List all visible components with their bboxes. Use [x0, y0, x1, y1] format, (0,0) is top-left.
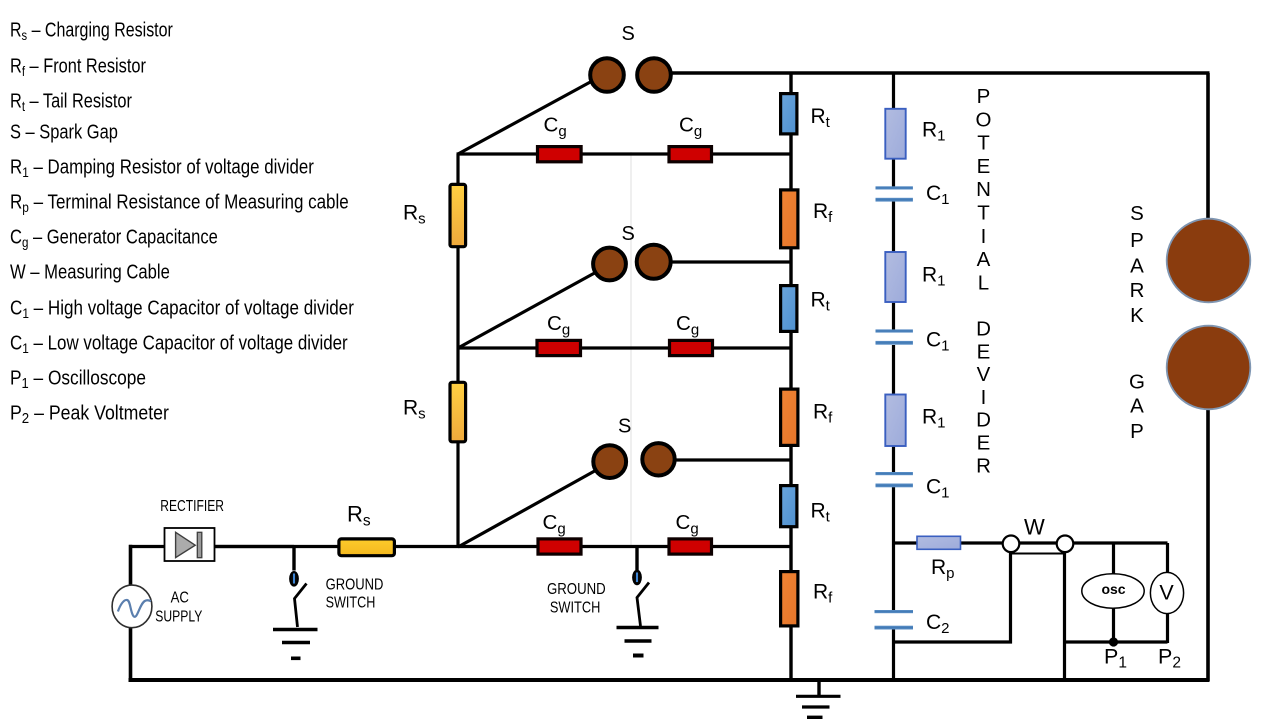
svg-text:K: K — [1130, 304, 1144, 327]
wire bottom bus — [129, 678, 1210, 682]
svg-text:AC: AC — [171, 590, 189, 607]
svg-text:GROUND: GROUND — [326, 576, 384, 593]
svg-text:S: S — [618, 416, 631, 438]
svg-text:C1 – High voltage Capacitor of: C1 – High voltage Capacitor of voltage d… — [10, 296, 354, 321]
ac source — [112, 585, 152, 628]
resistor R1c — [885, 395, 905, 447]
svg-text:E: E — [977, 340, 991, 363]
capacitor Cg row2 left — [537, 340, 581, 355]
svg-text:R1: R1 — [922, 119, 946, 145]
resistor Rf1 — [781, 190, 798, 248]
svg-text:G: G — [1129, 371, 1145, 394]
wire diagonal to spark gap S2 — [458, 270, 600, 348]
svg-text:Cg – Generator Capacitance: Cg – Generator Capacitance — [10, 225, 218, 250]
svg-text:Rt – Tail Resistor: Rt – Tail Resistor — [10, 89, 132, 114]
wire row1 — [457, 152, 792, 155]
svg-text:P: P — [977, 85, 991, 108]
svg-text:C2: C2 — [926, 611, 950, 637]
svg-text:Rt: Rt — [811, 289, 831, 315]
svg-text:RECTIFIER: RECTIFIER — [160, 496, 224, 514]
capacitor C1b — [876, 329, 913, 344]
svg-text:Cg: Cg — [544, 114, 567, 141]
svg-text:C1: C1 — [926, 329, 950, 355]
wire top bus — [664, 71, 1210, 75]
svg-text:P2 – Peak Voltmeter: P2 – Peak Voltmeter — [10, 402, 169, 427]
svg-text:Cg: Cg — [676, 511, 699, 538]
wire row2 — [457, 346, 792, 349]
svg-text:Rf: Rf — [813, 401, 833, 427]
resistor Rs3 — [339, 539, 395, 556]
cable terminal right — [1057, 536, 1074, 553]
svg-text:GROUND: GROUND — [547, 581, 606, 598]
wire osc top lead — [1112, 543, 1115, 574]
svg-text:O: O — [976, 108, 992, 131]
svg-text:I: I — [981, 386, 987, 409]
peak voltmeter P2 — [1150, 572, 1183, 613]
svg-text:SWITCH: SWITCH — [326, 593, 376, 611]
spark gap S1 electrodes — [590, 58, 671, 92]
svg-text:Cg: Cg — [547, 312, 570, 339]
svg-text:V: V — [1159, 581, 1174, 605]
svg-text:Rs: Rs — [403, 397, 426, 423]
wire left charging bus — [456, 154, 459, 548]
svg-text:P1 – Oscilloscope: P1 – Oscilloscope — [10, 366, 146, 391]
ground symbol main — [796, 680, 841, 717]
svg-text:T: T — [977, 202, 990, 225]
svg-text:T: T — [977, 132, 990, 155]
capacitor Cg row1 right — [669, 147, 712, 162]
wire voltmeter top lead — [1166, 543, 1169, 574]
svg-text:Rf: Rf — [813, 200, 833, 226]
svg-text:Rf: Rf — [813, 581, 833, 607]
resistor Rf3 — [781, 572, 798, 626]
svg-text:R: R — [976, 454, 991, 477]
wire divider chain — [892, 73, 895, 681]
resistor Rf2 — [781, 389, 798, 445]
svg-text:Rt: Rt — [811, 105, 831, 131]
svg-text:D: D — [976, 318, 991, 341]
svg-text:I: I — [981, 225, 987, 248]
svg-text:SUPPLY: SUPPLY — [155, 607, 202, 625]
svg-text:Cg: Cg — [676, 312, 699, 339]
ground symbol 2 — [617, 628, 659, 656]
svg-text:N: N — [976, 178, 991, 201]
resistor R1a — [885, 109, 905, 159]
svg-text:SWITCH: SWITCH — [550, 600, 600, 617]
resistor Rt2 — [781, 286, 797, 332]
svg-text:W: W — [1024, 515, 1045, 540]
svg-text:Rp – Terminal Resistance of M: Rp – Terminal Resistance of Measuring ca… — [10, 190, 349, 215]
svg-text:osc: osc — [1101, 581, 1125, 597]
capacitor Cg row1 left — [538, 147, 582, 162]
wire measuring tap — [894, 541, 1168, 544]
wire bottom row — [212, 545, 791, 548]
svg-text:Rs – Charging Resistor: Rs – Charging Resistor — [10, 19, 173, 43]
svg-text:P: P — [1130, 420, 1144, 443]
wire voltmeter bottom lead — [1166, 612, 1169, 643]
svg-text:Rs: Rs — [347, 502, 371, 530]
svg-text:Rs: Rs — [403, 202, 426, 228]
svg-text:E: E — [977, 432, 991, 455]
capacitor Cg row3 right — [669, 539, 712, 554]
rectifier box — [165, 528, 215, 561]
wire ac supply left — [129, 545, 133, 586]
svg-text:A: A — [977, 248, 991, 271]
main spark gap electrodes — [1167, 219, 1251, 410]
svg-text:D: D — [976, 409, 991, 432]
svg-text:R: R — [1130, 279, 1145, 302]
junction P1 node — [1109, 637, 1118, 646]
resistor R1b — [885, 252, 905, 302]
ground switch 2 — [633, 547, 649, 626]
svg-text:R1: R1 — [922, 406, 946, 432]
svg-text:S – Spark Gap: S – Spark Gap — [10, 120, 118, 143]
svg-text:R1 – Damping Resistor of volta: R1 – Damping Resistor of voltage divider — [10, 155, 314, 180]
svg-text:Rf – Front Resistor: Rf – Front Resistor — [10, 54, 146, 79]
svg-text:C1 – Low voltage Capacitor of: C1 – Low voltage Capacitor of voltage di… — [10, 331, 348, 356]
svg-text:A: A — [1130, 395, 1144, 418]
spark gap S2 electrodes — [593, 245, 671, 281]
svg-text:Rt: Rt — [811, 500, 831, 526]
svg-text:P: P — [1130, 229, 1144, 252]
capacitor Cg row2 right — [670, 340, 713, 355]
wire sheath to divider foot — [892, 640, 1012, 643]
svg-text:S: S — [622, 23, 635, 45]
svg-text:R1: R1 — [922, 264, 946, 290]
spark gap S3 electrodes — [593, 443, 674, 478]
wire cable sheath left drop — [1009, 553, 1012, 644]
resistor Rt1 — [781, 94, 797, 134]
wire cable sheath bottom — [1011, 553, 1065, 555]
svg-text:P1: P1 — [1104, 645, 1127, 672]
resistor Rt3 — [781, 486, 797, 527]
svg-text:C1: C1 — [926, 182, 950, 208]
wire into rectifier — [129, 545, 165, 548]
svg-text:V: V — [977, 363, 991, 386]
wire osc bottom lead — [1112, 607, 1115, 643]
wire right border to spark gap — [1206, 73, 1210, 220]
svg-text:Cg: Cg — [543, 511, 566, 538]
label POTENTIAL DEVIDER — [976, 85, 992, 477]
oscilloscope P1 — [1082, 574, 1144, 608]
wire rectifier output — [215, 545, 295, 548]
svg-text:L: L — [978, 271, 989, 294]
capacitor C1a — [876, 186, 913, 201]
wire spark gap S2 output — [655, 260, 791, 263]
wire spark gap S3 output — [660, 458, 791, 461]
cable terminal left — [1003, 536, 1020, 553]
wire diagonal to spark gap S1 — [458, 80, 594, 154]
svg-text:P2: P2 — [1158, 645, 1181, 672]
svg-text:A: A — [1130, 255, 1144, 278]
wire cable right drop — [1063, 553, 1066, 681]
resistor Rs2 — [450, 382, 466, 442]
svg-text:E: E — [977, 155, 991, 178]
svg-text:S: S — [1130, 202, 1144, 225]
svg-text:Cg: Cg — [679, 114, 702, 141]
wire diagonal to spark gap S3 — [458, 468, 600, 547]
label SPARK GAP — [1129, 202, 1145, 443]
wire ac supply bottom — [129, 626, 133, 682]
ground switch 1 — [290, 547, 306, 627]
svg-text:Rp: Rp — [931, 556, 955, 582]
svg-text:C1: C1 — [926, 476, 950, 502]
capacitor Cg row3 left — [538, 539, 581, 554]
legend — [10, 19, 354, 427]
capacitor C1c — [876, 472, 913, 487]
capacitor C2 — [875, 610, 914, 630]
wire instrument bottom — [1064, 640, 1168, 643]
ground symbol 1 — [273, 630, 318, 659]
wire right generator bus — [789, 73, 792, 681]
svg-text:W – Measuring Cable: W – Measuring Cable — [10, 260, 170, 283]
resistor Rs1 — [450, 184, 466, 246]
faint construction line — [630, 152, 632, 548]
svg-text:S: S — [622, 223, 635, 245]
resistor Rp — [917, 536, 961, 549]
wire right border below spark gap — [1206, 408, 1210, 681]
